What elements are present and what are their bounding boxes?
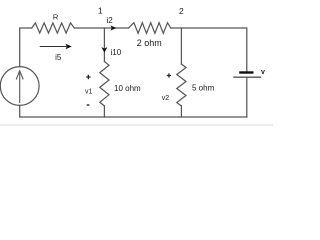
svg-text:v1: v1 [85,89,93,96]
svg-text:R: R [53,12,59,21]
wire: R to node 1 to 2-ohm [74,27,128,29]
polarity - for v1 [87,104,90,106]
current arrowhead i10 on branch [101,47,107,53]
wire: 10-ohm resistor to bottom rail [103,106,105,117]
svg-text:v: v [261,69,265,76]
wire: left rail top + top-left corner [20,28,32,67]
resistor 2 ohm (zigzag) [129,23,171,34]
svg-text:i5: i5 [55,53,62,62]
svg-text:2 ohm: 2 ohm [137,38,162,48]
wire: right rail below battery [246,78,248,117]
resistor 5 ohm (vertical zigzag) [177,64,186,106]
current source (circle) [0,67,39,106]
wire: bottom rail [20,116,247,118]
svg-text:1: 1 [98,5,103,15]
svg-text:2: 2 [179,6,184,16]
svg-text:i2: i2 [107,16,114,25]
wire: node 1 branch down (i10) [103,28,105,62]
current arrowhead i2 on top wire [111,25,117,30]
current source arrow (up) [16,71,23,103]
voltage source v: thin plate [233,76,261,78]
resistor 10 ohm (vertical zigzag) [100,62,109,106]
current arrow i5 [40,44,72,49]
polarity + for v2 [167,73,171,77]
wire: left rail below current source [19,105,21,117]
page rule (faint) [0,124,273,126]
wire: 5-ohm resistor to bottom rail [180,106,182,117]
svg-text:10 ohm: 10 ohm [114,84,141,93]
svg-text:i10: i10 [111,48,122,57]
svg-text:5 ohm: 5 ohm [192,83,215,92]
svg-text:v2: v2 [162,95,170,102]
resistor R (zigzag) [32,23,75,33]
wire: node 2 to top-right corner, right rail upper [171,28,247,72]
voltage source v: thick plate [239,71,253,73]
polarity + for v1 [86,75,90,79]
wire: node 2 branch down [180,28,182,64]
